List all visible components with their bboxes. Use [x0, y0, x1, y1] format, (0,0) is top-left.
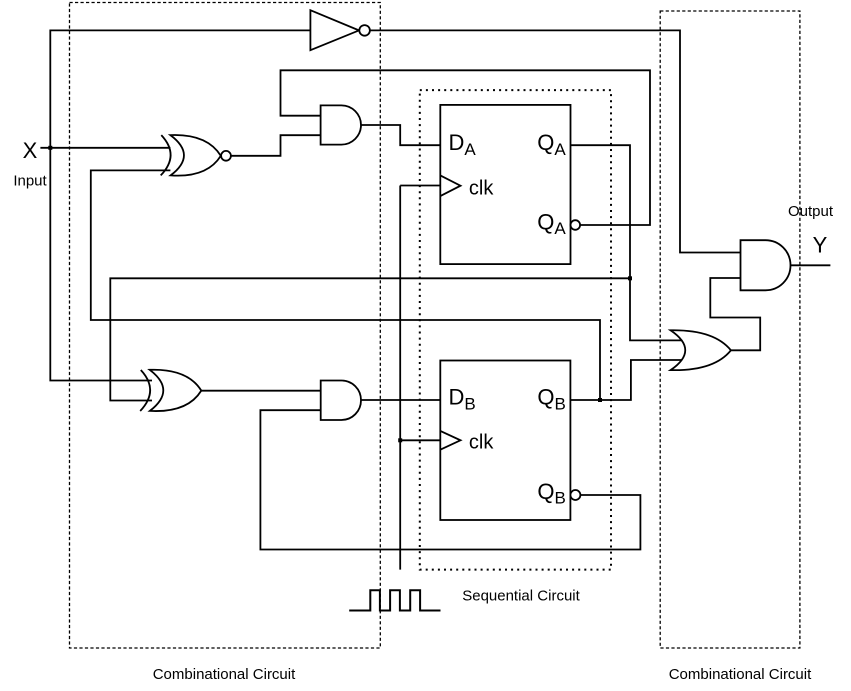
label Y — [813, 233, 828, 258]
wire: Y output — [791, 264, 831, 266]
svg-text:Input: Input — [13, 173, 47, 190]
label Sequential Circuit — [462, 588, 580, 605]
combinational circuit box (right) — [660, 11, 800, 648]
label QB — [537, 385, 565, 414]
node: QA branch junction — [628, 276, 632, 280]
wire: clock to FFB clk — [400, 439, 440, 441]
wire: AND1 output to DA — [361, 125, 440, 145]
AND gate 3 (output to Y) — [741, 240, 791, 290]
clock signal waveform — [349, 590, 440, 610]
combinational circuit box (left) — [70, 3, 381, 649]
D flip-flop A — [440, 105, 580, 264]
wire: XOR output to AND2 top input — [201, 390, 322, 392]
XOR gate — [140, 370, 201, 411]
AND gate 2 (to DB) — [321, 381, 361, 421]
label QB-bar — [537, 479, 565, 508]
label QA-bar — [537, 209, 566, 238]
wire: X down to XOR top input — [50, 148, 152, 381]
svg-text:Output: Output — [788, 203, 834, 220]
OR gate — [671, 330, 731, 370]
D flip-flop B — [440, 361, 580, 521]
svg-text:clk: clk — [469, 431, 494, 453]
wire: QB output up to OR bottom input — [570, 360, 683, 400]
node: QB branch junction — [598, 398, 602, 402]
wire: AND2 output to DB — [361, 399, 440, 401]
AND gate 1 (to DA) — [321, 105, 361, 144]
wire: QA branch to XOR bottom input — [110, 278, 630, 400]
node: X input junction — [48, 146, 52, 150]
label DA — [449, 130, 477, 159]
label clk A — [469, 178, 494, 200]
wire: X label stub and input row to XNOR — [40, 147, 170, 149]
sequential circuit box — [420, 90, 611, 569]
label clk B — [469, 431, 494, 453]
wire: clock vertical — [399, 186, 401, 570]
wire: QB feedback to XNOR bottom input — [91, 170, 600, 400]
node: clock branch junction — [398, 438, 402, 442]
label Output — [788, 203, 834, 220]
wire: inverter output to AND3 top input — [370, 30, 742, 252]
svg-text:Sequential Circuit: Sequential Circuit — [462, 588, 580, 605]
wire: OR output to AND3 bottom input — [710, 278, 760, 350]
svg-text:Combinational Circuit: Combinational Circuit — [669, 666, 812, 683]
label Combinational Circuit (left) — [153, 666, 296, 683]
inverter (NOT gate) — [310, 10, 370, 50]
label X — [23, 138, 38, 163]
svg-text:Combinational Circuit: Combinational Circuit — [153, 666, 296, 683]
label QA — [537, 130, 566, 159]
label DB — [449, 385, 476, 414]
svg-text:Y: Y — [813, 233, 828, 258]
label Combinational Circuit (right) — [669, 666, 812, 683]
wire: clock to FFA clk — [400, 185, 440, 187]
label Input — [13, 173, 47, 190]
wire: QA-bar to AND1 top input — [281, 70, 651, 225]
svg-text:clk: clk — [469, 178, 494, 200]
wire: QA output down to OR top input — [571, 145, 682, 340]
XNOR gate — [161, 135, 231, 176]
wire: XNOR output to AND1 bottom input — [231, 135, 323, 156]
wire: X up to inverter input — [50, 30, 310, 147]
wire: QB-bar feedback to AND2 bottom input — [260, 410, 640, 549]
svg-text:X: X — [23, 138, 38, 163]
